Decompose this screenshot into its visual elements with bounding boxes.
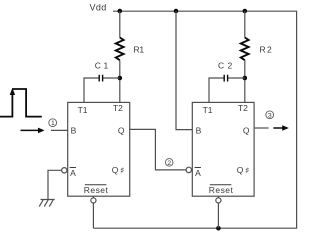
svg-text:T1: T1 (78, 105, 88, 115)
input pulse waveform icon (0, 89, 42, 117)
wire C2 left lead and T1 stub of U2 (209, 78, 224, 102)
wire from Vdd rail down to R2 (244, 11, 246, 38)
svg-text:Reset: Reset (209, 185, 234, 195)
svg-text:R2: R2 (260, 45, 274, 55)
svg-text:Reset: Reset (84, 185, 109, 195)
svg-text:2: 2 (167, 160, 171, 167)
input arrow (21, 129, 40, 131)
output arrow (273, 127, 283, 129)
svg-text:Q: Q (237, 165, 244, 175)
node junction dot at B2 feed (174, 9, 179, 14)
wire R1 bottom to T2 pin of U1 (119, 60, 121, 102)
capacitor C2 (224, 75, 227, 82)
svg-text:B: B (71, 126, 77, 136)
svg-text:Q: Q (112, 165, 119, 175)
svg-text:Vdd: Vdd (90, 3, 107, 13)
ground symbol (39, 200, 55, 207)
wire C1 right lead (103, 77, 120, 79)
node junction dot at R2 top (243, 9, 248, 14)
resistor R1 (116, 38, 124, 61)
wire C1 left lead and T1 stub of U1 (84, 78, 99, 102)
wire Q of U1 to node 2 and A-bar of U2 (130, 129, 186, 170)
svg-text:A: A (70, 168, 76, 178)
monostable block U2 (192, 102, 254, 196)
svg-text:B: B (196, 126, 202, 136)
svg-text:♯: ♯ (245, 167, 249, 174)
wire C2 right lead (228, 77, 245, 79)
wire Vdd to B pin of U2 (176, 11, 192, 130)
svg-text:R1: R1 (134, 45, 145, 55)
svg-text:T1: T1 (203, 105, 213, 115)
wire U1 reset stub (92, 196, 94, 228)
inverting bubble on Reset pin of U1 (91, 198, 96, 203)
wire Vdd top rail, right-side feedback and bottom reset rail (93, 11, 296, 228)
node junction dot at R1 top (118, 9, 123, 14)
wire A-bar of U1 to ground (48, 170, 62, 199)
node 2 circled label (165, 159, 173, 167)
svg-text:C 2: C 2 (218, 60, 233, 70)
monostable block U1 (68, 102, 130, 196)
wire Q of U2 to output (254, 127, 269, 129)
node junction dot at Reset2 on bottom rail (216, 226, 221, 231)
svg-text:T2: T2 (238, 103, 248, 113)
svg-text:3: 3 (268, 112, 272, 119)
svg-text:A: A (195, 168, 201, 178)
svg-text:Q: Q (243, 126, 250, 136)
wire U2 reset stub (217, 196, 219, 228)
resistor R2 (241, 38, 249, 61)
node junction dot C1/R1/T2 (118, 76, 123, 81)
svg-text:T2: T2 (113, 103, 123, 113)
node junction dot C2/R2/T2 (243, 76, 248, 81)
capacitor C1 (99, 75, 102, 82)
node 3 circled label (266, 111, 274, 119)
svg-text:C 1: C 1 (95, 60, 109, 70)
node 1 circled label (49, 119, 57, 127)
svg-text:Q: Q (118, 126, 125, 136)
wire input to B pin of U1 (51, 129, 68, 131)
wire R2 bottom to T2 pin of U2 (244, 60, 246, 102)
svg-text:♯: ♯ (120, 167, 124, 174)
svg-text:1: 1 (51, 120, 55, 127)
inverting bubble on A-bar pin of U2 (186, 167, 191, 172)
inverting bubble on A-bar pin of U1 (62, 168, 67, 173)
arrowhead on pulse rising edge (10, 88, 15, 95)
inverting bubble on Reset pin of U2 (216, 198, 221, 203)
wire from Vdd rail down to R1 (119, 11, 121, 38)
